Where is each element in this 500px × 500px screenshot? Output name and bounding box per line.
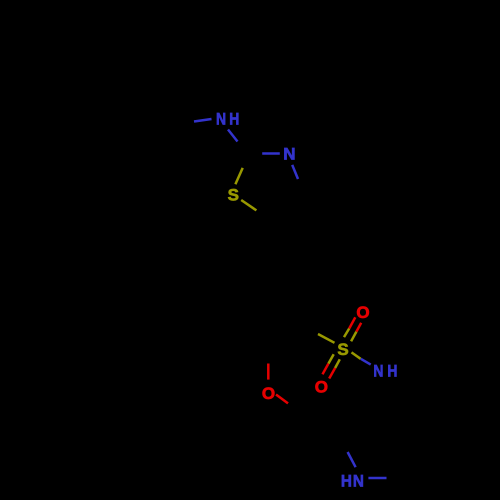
wire S=O2 line1 yellow half xyxy=(328,354,333,363)
wire bond O3-CH2 red half xyxy=(276,395,288,404)
svg-text:N: N xyxy=(353,472,364,491)
wire bond C2=N3 thiazole blue half xyxy=(262,152,280,155)
svg-text:H: H xyxy=(341,472,352,491)
wire bond S-N sulfonamide blue half xyxy=(361,359,371,365)
wire S=O2 line2 red half xyxy=(329,368,335,379)
wire bond O3-C(aryl) red half xyxy=(267,364,270,380)
wire bond S1-C2 thiazole yellow half xyxy=(235,168,242,184)
wire S=O1 line1 red half xyxy=(349,317,355,328)
wire S=O2 line2 yellow half xyxy=(335,359,340,368)
wire bond S-C(aryl) yellow half xyxy=(318,334,335,343)
wire bond C-N pyrrolidine blue half (upper) xyxy=(348,452,356,467)
svg-text:O: O xyxy=(315,377,328,396)
svg-text:N: N xyxy=(283,145,295,164)
svg-text:H: H xyxy=(229,110,239,129)
svg-text:O: O xyxy=(356,303,369,322)
wire bond N3-C4 thiazole blue half xyxy=(292,165,298,179)
svg-text:O: O xyxy=(262,384,275,403)
wire S=O1 line2 red half xyxy=(356,323,361,332)
wire S=O2 line1 red half xyxy=(323,364,329,375)
wire bond S1-C5 thiazole yellow half xyxy=(241,200,256,210)
wire S=O1 line2 yellow half xyxy=(351,332,356,342)
svg-text:N: N xyxy=(216,110,226,129)
svg-text:S: S xyxy=(337,340,348,359)
svg-text:N: N xyxy=(373,362,383,381)
wire bond S-N sulfonamide yellow half xyxy=(352,352,361,358)
wire S=O1 line1 yellow half xyxy=(344,329,349,338)
wire bond C1(cyclohexyl)-N(H) blue half xyxy=(194,119,212,122)
wire bond NH-C2 thiazole blue half xyxy=(228,130,238,142)
wire bond N-C pyrrolidine blue half (right) xyxy=(368,477,386,480)
svg-text:H: H xyxy=(387,362,397,381)
svg-text:S: S xyxy=(228,186,239,205)
